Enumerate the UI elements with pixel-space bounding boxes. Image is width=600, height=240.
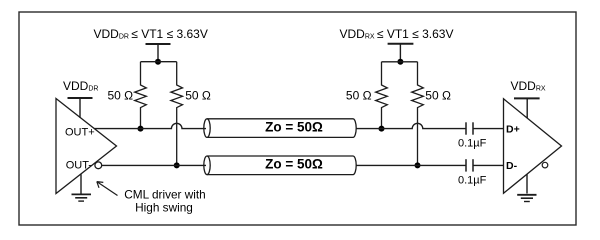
ground (receiver) (517, 174, 536, 201)
power rail VT1 (left) (146, 43, 171, 45)
wire: rail stem right (399, 44, 401, 62)
capacitor C2 0.1uF (bottom) (466, 159, 473, 171)
resistor R1 50 ohm (left pair, left) (135, 62, 147, 129)
power rail VT1 (right) (388, 43, 414, 45)
power bar VDDDR (68, 97, 93, 99)
resistor R2 50 ohm (left pair, right) (171, 62, 183, 166)
wire row2 right segment (356, 164, 466, 166)
power bar VDDRX (514, 97, 540, 99)
wire: rail stem left (157, 44, 159, 62)
wire: top link between R1 and R2 (141, 61, 177, 63)
bubble on receiver edge (542, 162, 548, 168)
op-amp U1 CML driver triangle (56, 99, 117, 194)
svg-text:50 Ω: 50 Ω (346, 89, 372, 103)
wire: top link between R3 and R4 (382, 61, 418, 63)
svg-text:OUT+: OUT+ (65, 126, 95, 138)
svg-text:50 Ω: 50 Ω (425, 89, 451, 103)
svg-text:D-: D- (506, 160, 518, 172)
ground (driver) (72, 174, 92, 201)
wire: VDDDR stem (79, 98, 81, 118)
wire OUT- row2 left segment (102, 164, 206, 166)
junction dot R3/row1 (379, 126, 385, 132)
svg-text:D+: D+ (506, 123, 520, 135)
junction dot R4/row2 (415, 162, 421, 168)
wire OUT+ row1 left segment with hop over R2 branch (94, 123, 206, 128)
junction dot R1/OUT+ (138, 126, 144, 132)
transmission line T1 Zo=50ohm (top) (204, 119, 356, 138)
wire: VDDRX stem (526, 98, 528, 118)
resistor R3 50 ohm (right pair, left) (376, 62, 388, 129)
svg-text:0.1µF: 0.1µF (458, 175, 487, 187)
svg-text:OUT-: OUT- (66, 160, 93, 172)
transmission line T2 Zo=50ohm (bottom) (204, 156, 356, 175)
svg-text:VDDDR ≤ VT1 ≤ 3.63V: VDDDR ≤ VT1 ≤ 3.63V (94, 27, 208, 41)
svg-text:Zo = 50Ω: Zo = 50Ω (265, 119, 323, 134)
svg-text:VDDRX ≤ VT1 ≤ 3.63V: VDDRX ≤ VT1 ≤ 3.63V (340, 27, 454, 41)
junction dot right rail (397, 59, 403, 65)
wire C2 to D- (473, 164, 504, 166)
junction dot left rail (155, 59, 161, 65)
svg-text:0.1µF: 0.1µF (458, 138, 487, 150)
svg-text:High swing: High swing (135, 200, 193, 214)
wire C1 to D+ (473, 128, 504, 130)
annotation arrow to driver (97, 182, 118, 196)
inverting bubble on OUT- (95, 162, 102, 169)
resistor R4 50 ohm (right pair, right) (412, 62, 424, 166)
svg-text:50 Ω: 50 Ω (185, 89, 211, 103)
op-amp U2 receiver triangle (504, 99, 562, 194)
svg-text:Zo = 50Ω: Zo = 50Ω (265, 156, 323, 171)
capacitor C1 0.1uF (top) (466, 122, 473, 134)
wire row1 right segment with hop over R4 branch (356, 123, 466, 128)
junction dot R2/OUT- (174, 162, 180, 168)
svg-text:50 Ω: 50 Ω (108, 89, 134, 103)
